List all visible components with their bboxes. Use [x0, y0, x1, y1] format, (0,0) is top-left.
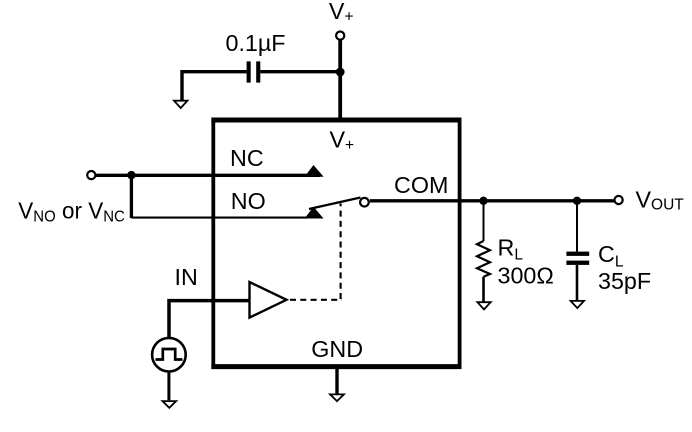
svg-text:VOUT: VOUT — [636, 187, 685, 214]
wire bypass left segment with corner — [182, 72, 247, 100]
dashed control wire horizontal — [290, 299, 342, 301]
svg-text:GND: GND — [311, 336, 363, 362]
svg-text:NO: NO — [231, 188, 266, 214]
svg-text:0.1µF: 0.1µF — [226, 30, 286, 56]
capacitor CL — [576, 201, 578, 252]
svg-text:CL: CL — [598, 241, 624, 271]
ground G3 — [330, 394, 344, 401]
junction dot V+ — [336, 68, 345, 77]
arrow NC — [306, 166, 323, 177]
wire bypass right segment — [260, 70, 342, 73]
buffer amplifier — [250, 282, 287, 318]
svg-text:RL: RL — [498, 235, 524, 264]
resistor RL — [483, 201, 485, 241]
node V+ terminal — [336, 31, 344, 39]
switch pole circle — [360, 198, 369, 207]
svg-text:V+: V+ — [329, 0, 354, 26]
svg-text:IN: IN — [175, 264, 198, 290]
svg-text:300Ω: 300Ω — [498, 262, 554, 288]
ground G4 — [477, 302, 490, 309]
switch lever — [309, 198, 361, 210]
wire IN — [169, 301, 249, 339]
pulse source — [152, 338, 186, 372]
node VOUT terminal — [615, 196, 623, 204]
junction dot CL — [573, 197, 581, 205]
junction dot VNO — [127, 171, 135, 179]
svg-text:V+: V+ — [330, 127, 355, 154]
arrow NO — [306, 208, 323, 219]
ground G2 — [163, 401, 177, 408]
svg-text:VNO or VNC: VNO or VNC — [18, 198, 125, 226]
DUT box — [211, 120, 461, 367]
wire V+ vertical — [338, 41, 342, 120]
svg-text:35pF: 35pF — [598, 268, 651, 294]
capacitor C 0.1uF plates — [247, 61, 251, 82]
ground G1 — [174, 101, 187, 108]
wire GND stub — [335, 368, 338, 394]
wire pulse to ground — [167, 371, 170, 400]
wire VNO vertical — [130, 175, 133, 218]
junction dot RL — [479, 197, 487, 205]
node VNO terminal — [87, 171, 95, 179]
wire COM — [370, 199, 614, 202]
svg-text:COM: COM — [394, 172, 448, 198]
wire NO — [131, 217, 308, 219]
ground G5 — [571, 301, 584, 308]
svg-text:NC: NC — [230, 145, 264, 171]
wire NC — [96, 174, 320, 177]
dashed control wire vertical — [340, 204, 342, 300]
